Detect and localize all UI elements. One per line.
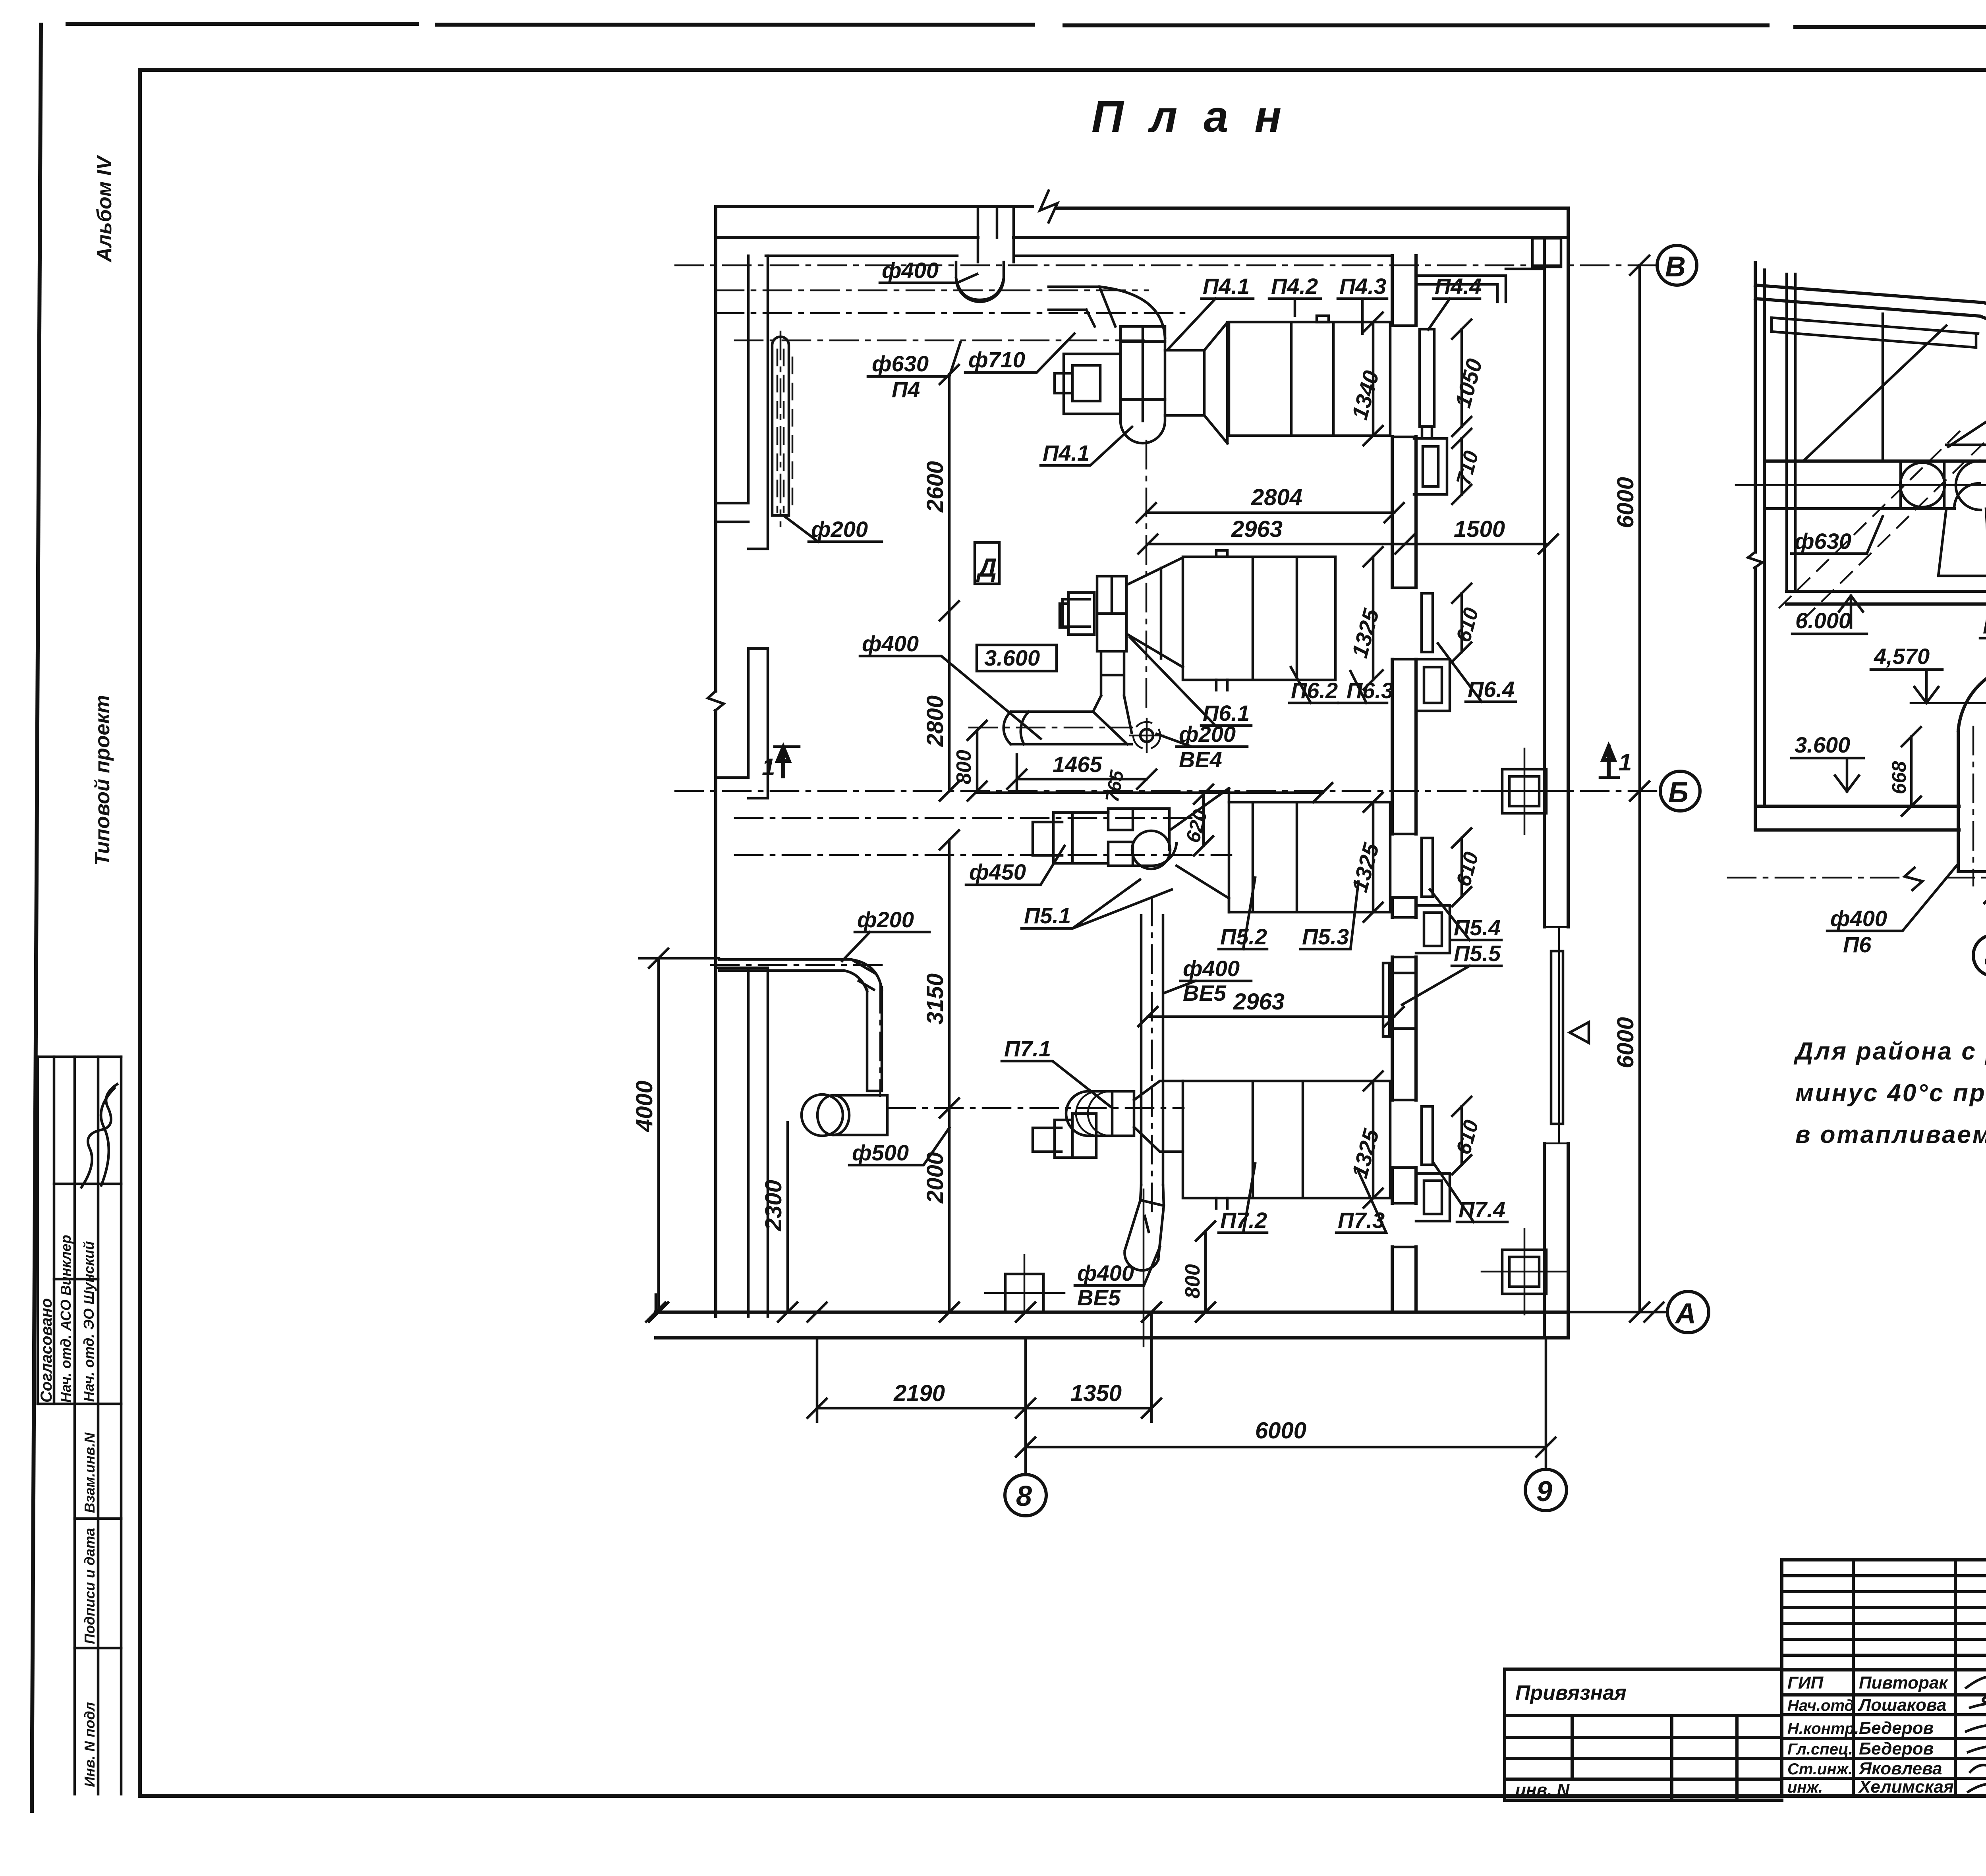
truss bottom chord	[1764, 445, 1986, 504]
dim 6000 to axis 9	[1026, 1446, 1546, 1449]
main outline	[1782, 1560, 1986, 1796]
dim 620	[1202, 794, 1205, 846]
svg-text:П4.1: П4.1	[1043, 440, 1090, 465]
svg-text:3.600: 3.600	[1795, 732, 1850, 757]
П4.1 fan scroll	[1121, 342, 1165, 443]
dim 2963 upper	[1148, 543, 1405, 546]
svg-text:П4.1: П4.1	[1983, 613, 1986, 638]
vertical dim 6000 between Б and А	[1638, 791, 1641, 1312]
signatures in title block	[1966, 1676, 1986, 1792]
dim 1325 П5	[1372, 802, 1375, 912]
П6.1 fan column	[1097, 576, 1126, 651]
axis Б dash-dot	[675, 790, 1658, 792]
upper small table columns	[1852, 1560, 1855, 1796]
stamp signatures	[81, 1084, 117, 1187]
corridor top niche	[1416, 269, 1544, 302]
svg-text:1350: 1350	[1070, 1380, 1122, 1406]
svg-text:П4.3: П4.3	[1339, 274, 1386, 299]
axis Б bubble	[1660, 771, 1700, 811]
svg-text:П4.2: П4.2	[1271, 274, 1318, 299]
right outer wall	[1544, 208, 1568, 1338]
svg-text:ГИП: ГИП	[1787, 1673, 1824, 1693]
dim 1050	[1461, 329, 1463, 427]
П7.4 heater in wall	[1422, 1106, 1433, 1165]
inner partition wall segments (with AB openings)	[1392, 256, 1416, 1312]
dim 1325 П6	[1372, 557, 1375, 680]
svg-text:ф400: ф400	[1183, 956, 1240, 981]
svg-text:План: План	[1092, 92, 1308, 141]
svg-text:1325: 1325	[1347, 840, 1384, 895]
П6.4 heater in wall	[1422, 593, 1433, 652]
dim 710	[1452, 429, 1471, 448]
svg-text:1325: 1325	[1347, 1126, 1384, 1181]
svg-text:1050: 1050	[1450, 356, 1487, 410]
svg-text:ф400: ф400	[1077, 1260, 1134, 1285]
П5.4 heater in wall	[1422, 838, 1433, 897]
axis B bubble	[1657, 245, 1697, 285]
svg-text:Привязная: Привязная	[1515, 1681, 1627, 1704]
window leaf rectangle	[1551, 951, 1563, 1124]
П6 cone to box	[1126, 558, 1183, 667]
outer left border line	[32, 25, 41, 1811]
svg-text:Согласовано: Согласовано	[38, 1298, 55, 1403]
svg-text:Гл.спец.: Гл.спец.	[1787, 1741, 1853, 1758]
svg-text:П4.4: П4.4	[1435, 274, 1482, 299]
corridor column top	[1532, 238, 1561, 267]
svg-text:2800: 2800	[922, 695, 948, 747]
dim 2800	[948, 611, 951, 791]
dim 1340	[1372, 322, 1375, 436]
ground dash-dot	[1728, 877, 1986, 879]
П5.5 louver	[1383, 963, 1414, 1036]
svg-text:Нач. отд. АСО Винклер: Нач. отд. АСО Винклер	[58, 1235, 74, 1403]
left wall lower double	[716, 968, 768, 1316]
svg-text:Нач.отд: Нач.отд	[1787, 1697, 1854, 1714]
П6 discharge duct down to elbow	[1093, 651, 1132, 733]
svg-text:Хелимская: Хелимская	[1858, 1777, 1954, 1797]
vertical dim 6000 between В and Б	[1638, 265, 1641, 791]
svg-text:Взам.инв.N: Взам.инв.N	[81, 1432, 98, 1513]
ф450 inlet duct from left	[1033, 813, 1108, 863]
svg-text:ф400: ф400	[882, 258, 939, 283]
left wall double line	[1755, 263, 1764, 830]
П6 elbow duct up	[1961, 803, 1986, 832]
left stamp table	[38, 1057, 121, 1794]
svg-text:ф630: ф630	[872, 351, 929, 376]
svg-text:8: 8	[1984, 941, 1986, 973]
svg-text:2963: 2963	[1233, 989, 1285, 1015]
svg-text:Альбом IV: Альбом IV	[93, 154, 116, 263]
П7.1 fan	[1066, 1091, 1134, 1136]
svg-text:4000: 4000	[632, 1081, 657, 1132]
П6.1 motor	[1060, 593, 1094, 635]
duct ф400 elbow at top wall	[956, 262, 1004, 302]
dim 2190 / 1350	[816, 1338, 819, 1422]
svg-text:Бедеров: Бедеров	[1859, 1718, 1934, 1738]
svg-text:800: 800	[952, 750, 976, 784]
svg-text:П5.1: П5.1	[1024, 903, 1071, 928]
left inner column lines	[1787, 274, 1795, 591]
axis A bubble	[1667, 1291, 1709, 1333]
triangle level marker right corridor	[1570, 1022, 1589, 1043]
svg-text:1465: 1465	[1053, 752, 1102, 777]
horizontal supply duct П4	[1764, 461, 1986, 580]
svg-text:Н.контр.: Н.контр.	[1787, 1720, 1859, 1737]
svg-text:6000: 6000	[1613, 1017, 1638, 1068]
axis B (В) dash-dot	[675, 264, 1656, 266]
vertical dim 2300	[786, 1122, 789, 1312]
svg-text:ВЕ4: ВЕ4	[1179, 747, 1222, 772]
svg-text:ф400: ф400	[862, 631, 919, 656]
ф630 duct dashed diagonal behind	[1779, 429, 1986, 620]
П7 box	[1183, 1081, 1390, 1198]
section cut mark 1 right	[1603, 747, 1614, 776]
axis bubble 9	[1525, 1469, 1567, 1511]
svg-text:668: 668	[1888, 761, 1910, 794]
П5 cone to box	[1170, 788, 1229, 912]
corridor column mid	[1502, 769, 1546, 813]
svg-text:Подписи и дата: Подписи и дата	[81, 1528, 98, 1644]
П6 box	[1183, 557, 1335, 680]
roof top chords	[1755, 285, 1986, 504]
ceiling slab	[1787, 591, 1986, 604]
svg-text:ф500: ф500	[852, 1140, 909, 1165]
left wall pilaster 1	[716, 256, 768, 549]
svg-text:4,570: 4,570	[1874, 644, 1930, 669]
section cut mark 1 left	[778, 747, 789, 776]
svg-text:1: 1	[1619, 749, 1632, 776]
svg-text:610: 610	[1452, 605, 1483, 645]
dim 2963 lower	[1148, 1015, 1394, 1018]
svg-text:2000: 2000	[922, 1152, 948, 1204]
svg-text:инв. N: инв. N	[1515, 1780, 1570, 1800]
svg-text:6000: 6000	[1613, 477, 1638, 528]
svg-text:610: 610	[1452, 1117, 1483, 1157]
svg-text:в отапливаемое помещение: в отапливаемое помещение	[1795, 1121, 1986, 1148]
svg-text:800: 800	[1181, 1264, 1204, 1299]
dim 800	[976, 730, 979, 791]
axis bubble 8 section	[1973, 935, 1986, 976]
left wall	[714, 207, 717, 1316]
dim 3150	[948, 840, 951, 1108]
outer top border line (broken scan line)	[68, 24, 1986, 27]
svg-text:2300: 2300	[761, 1180, 786, 1231]
svg-text:Нач. отд. ЭО Шунский: Нач. отд. ЭО Шунский	[81, 1241, 97, 1402]
fan circle 2 (П4 fan)	[1954, 461, 1981, 510]
dim 2804	[1146, 511, 1394, 514]
svg-text:6000: 6000	[1255, 1418, 1306, 1444]
roof panels lower lines	[1772, 318, 1986, 515]
corridor column bottom	[1502, 1250, 1546, 1294]
svg-text:ф200: ф200	[857, 907, 914, 932]
svg-text:Ст.инж.: Ст.инж.	[1787, 1760, 1853, 1778]
svg-text:Инв. N подл: Инв. N подл	[81, 1702, 98, 1787]
П4.2/П4.3 box	[1229, 322, 1390, 436]
upper small table rows	[1782, 1574, 1986, 1577]
3.600 boxed level	[977, 645, 1057, 671]
svg-text:8: 8	[1016, 1480, 1032, 1512]
privyaznaya table	[1505, 1669, 1782, 1800]
svg-text:Пивторак: Пивторак	[1859, 1673, 1949, 1693]
svg-text:П6.4: П6.4	[1468, 677, 1515, 702]
opening jamb stubs	[1392, 326, 1416, 1247]
svg-text:765: 765	[1102, 768, 1128, 804]
svg-text:Д: Д	[976, 553, 997, 582]
svg-text:П6.3: П6.3	[1347, 678, 1393, 703]
П4.1 to box cone	[1165, 322, 1227, 443]
ф500 duct with round end	[802, 1094, 843, 1136]
svg-text:инж.: инж.	[1787, 1779, 1823, 1796]
duct penetration through top wall	[978, 207, 1014, 262]
svg-text:Лошакова: Лошакова	[1858, 1695, 1946, 1715]
ф400 horizontal duct with round elbow cap	[1004, 712, 1132, 744]
svg-text:А: А	[1675, 1298, 1696, 1330]
fan circle 1	[1900, 463, 1945, 507]
ВЕ5 exhaust duct vertical	[1141, 915, 1163, 1185]
ВЕ4 exhaust point	[1140, 729, 1153, 742]
floor slab	[1755, 806, 1986, 830]
wall break symbol top	[1040, 191, 1057, 222]
duct supports under ceiling	[1938, 509, 1986, 576]
louver grille ф200 in left wall	[772, 337, 789, 515]
dim 610 П6	[1461, 593, 1463, 652]
svg-text:ф450: ф450	[969, 859, 1026, 884]
svg-text:П5.5: П5.5	[1454, 941, 1501, 966]
Д marker box	[975, 542, 999, 584]
svg-text:ф200: ф200	[1179, 722, 1236, 747]
svg-text:ВЕ5: ВЕ5	[1077, 1285, 1121, 1310]
svg-text:9: 9	[1536, 1476, 1552, 1507]
dim line to wall	[977, 791, 1323, 794]
svg-text:ф400: ф400	[1830, 906, 1887, 931]
П4 damper box 710	[1414, 438, 1447, 494]
svg-text:1325: 1325	[1347, 606, 1384, 660]
svg-text:710: 710	[1452, 448, 1483, 488]
svg-text:П4.1: П4.1	[1203, 274, 1250, 299]
truss web diagonals	[1803, 326, 1986, 461]
svg-text:3150: 3150	[922, 973, 948, 1025]
dim 2600	[948, 374, 951, 611]
bottom wall	[656, 1312, 1568, 1338]
svg-text:минус 40°с привод утепленной з: минус 40°с привод утепленной заслонки вы…	[1795, 1079, 1986, 1107]
svg-text:3.600: 3.600	[984, 645, 1040, 670]
dim 610 П5	[1461, 838, 1463, 897]
svg-text:В: В	[1665, 251, 1686, 283]
svg-text:ф200: ф200	[811, 517, 868, 542]
top wall outer line	[716, 207, 1568, 208]
svg-text:П5.3: П5.3	[1302, 924, 1349, 949]
dim 668	[1910, 737, 1913, 806]
svg-text:Для района с расчетной наружно: Для района с расчетной наружной температ…	[1793, 1038, 1986, 1065]
svg-text:Яковлева: Яковлева	[1858, 1759, 1942, 1778]
svg-text:1500: 1500	[1454, 516, 1505, 542]
dim 1325 П7	[1372, 1081, 1375, 1198]
svg-text:1: 1	[762, 754, 775, 780]
П4 supply duct from left with mitered elbow	[1049, 287, 1115, 326]
svg-text:Типовой проект: Типовой проект	[91, 695, 114, 866]
П7 cone to box	[1134, 1081, 1183, 1152]
svg-text:Бедеров: Бедеров	[1859, 1739, 1934, 1758]
П5 box	[1229, 802, 1390, 912]
dim 1465 + 765	[1017, 778, 1147, 781]
П5.1 fan	[1108, 809, 1133, 866]
svg-text:П6: П6	[1843, 932, 1872, 957]
svg-text:6.000: 6.000	[1795, 608, 1851, 633]
axis A line to bubble	[1568, 1311, 1667, 1314]
left wall pilaster 2	[716, 648, 768, 798]
svg-text:2190: 2190	[893, 1380, 945, 1406]
truss verticals	[1883, 314, 1986, 500]
dim 1500	[1405, 543, 1548, 546]
svg-text:П4: П4	[892, 377, 920, 402]
svg-text:ВЕ5: ВЕ5	[1183, 980, 1227, 1006]
window thin line in right wall	[1544, 927, 1568, 1143]
dim 2000	[948, 1108, 951, 1312]
dim 610 П7	[1461, 1106, 1463, 1165]
svg-text:2963: 2963	[1231, 516, 1283, 542]
column stub bottom-left	[1005, 1274, 1043, 1312]
svg-text:2804: 2804	[1251, 484, 1302, 510]
personnel rows	[1782, 1693, 1986, 1697]
П4.4 heater in wall	[1420, 329, 1434, 438]
wall break symbol left	[708, 691, 724, 711]
svg-text:620: 620	[1182, 807, 1212, 845]
П4 fan internal seams	[1121, 326, 1165, 421]
svg-text:Б: Б	[1668, 777, 1688, 809]
svg-text:1340: 1340	[1347, 368, 1384, 422]
left vertical dim 4000	[657, 958, 660, 1312]
top wall second inner line	[766, 255, 1392, 257]
top wall inner line	[716, 236, 1568, 239]
svg-text:П7.1: П7.1	[1004, 1036, 1051, 1061]
П4.1 motor bracket	[1055, 354, 1121, 414]
svg-text:ф630: ф630	[1795, 529, 1851, 554]
svg-text:ф710: ф710	[968, 347, 1025, 372]
axis bubble 8	[1005, 1475, 1046, 1516]
svg-text:610: 610	[1452, 849, 1483, 889]
dim 800 bottom	[1204, 1231, 1207, 1312]
svg-text:2600: 2600	[922, 461, 948, 513]
